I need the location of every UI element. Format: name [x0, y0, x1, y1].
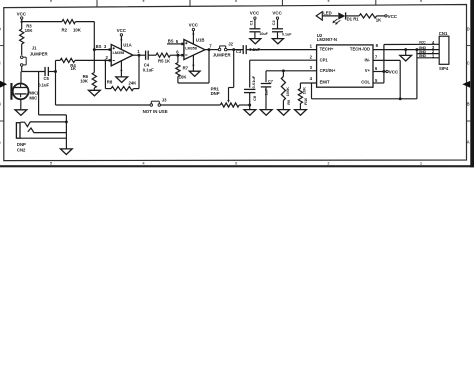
- svg-text:D: D: [467, 27, 470, 32]
- svg-text:LM358: LM358: [113, 51, 125, 55]
- ground below C1: [250, 39, 261, 44]
- ground below U1B: [189, 71, 200, 76]
- svg-text:CN1: CN1: [439, 31, 448, 36]
- svg-text:100K: 100K: [285, 87, 290, 97]
- wire mic node to jack tip: [38, 72, 40, 115]
- ground below C6: [244, 110, 256, 116]
- svg-text:U1A: U1A: [123, 43, 132, 48]
- resistor R7: [177, 55, 179, 62]
- svg-text:C: C: [0, 61, 1, 66]
- svg-text:D1 R1: D1 R1: [347, 17, 360, 22]
- node ground tap on pin 8 net: [404, 48, 407, 51]
- node C5 output junction: [48, 71, 55, 73]
- svg-text:R10: R10: [303, 97, 308, 105]
- svg-text:MIC: MIC: [29, 95, 37, 100]
- svg-text:0.1uF: 0.1uF: [143, 68, 154, 73]
- svg-text:10K: 10K: [25, 28, 34, 33]
- node BS bias junction: [93, 48, 96, 51]
- connector CN1 SIP4: [439, 36, 449, 64]
- wire EMIT/IN- bottom run: [312, 98, 417, 100]
- svg-text:GND: GND: [419, 54, 427, 58]
- svg-text:0.01uF: 0.01uF: [251, 75, 256, 88]
- wire gain loop right segment: [161, 104, 221, 106]
- svg-text:10K: 10K: [73, 27, 82, 32]
- left margin row tick y=45.6: [0, 45, 4, 47]
- microphone MK1: [13, 84, 29, 100]
- svg-text:U1B: U1B: [196, 37, 205, 42]
- svg-text:COL: COL: [361, 80, 370, 85]
- svg-text:LM358: LM358: [185, 46, 197, 50]
- svg-text:1K: 1K: [376, 17, 382, 22]
- jack sleeve wire to ground: [20, 137, 66, 139]
- capacitor C6: [244, 88, 255, 90]
- svg-text:J3: J3: [162, 97, 167, 102]
- capacitor C5: [44, 67, 46, 76]
- op-amp U1B: [184, 40, 205, 60]
- svg-text:VCC: VCC: [388, 14, 398, 19]
- svg-text:JUMPER: JUMPER: [213, 53, 231, 58]
- svg-text:CP2/IN+: CP2/IN+: [320, 68, 336, 73]
- ground below jack: [60, 149, 72, 155]
- ground below U1A: [116, 77, 128, 83]
- left margin row tick y=121: [0, 120, 4, 122]
- jumper J3 NOT IN USE: [150, 104, 153, 107]
- svg-text:V+: V+: [365, 68, 371, 73]
- svg-text:10uF: 10uF: [259, 32, 268, 36]
- svg-text:CP1: CP1: [320, 58, 329, 63]
- connector CN2 jack sleeve: [16, 123, 20, 139]
- svg-text:NOT IN USE: NOT IN USE: [143, 109, 168, 114]
- capacitor C3: [242, 45, 244, 54]
- wire J2 to C3: [227, 49, 243, 51]
- wire VCC rail to CN1 pin 4: [384, 43, 439, 45]
- svg-text:C4: C4: [144, 62, 150, 67]
- resistor R10: [299, 83, 301, 89]
- top margin column tick at x=376: [375, 0, 377, 5]
- sheet outer border right thick bar: [470, 0, 474, 167]
- svg-text:J1: J1: [32, 46, 37, 51]
- node PR1/C6 junction: [248, 104, 251, 107]
- svg-text:JUMPER: JUMPER: [30, 52, 48, 57]
- trimmer PR1 wiper wire: [233, 50, 235, 88]
- U1A V- stub to ground: [120, 61, 122, 77]
- power symbol VCC at R1: [385, 15, 387, 17]
- wire C3 to U2 pin 1: [246, 49, 316, 51]
- wire U1B output to J2: [205, 49, 219, 51]
- node R5/R7 junction: [176, 54, 179, 57]
- LED D1: [338, 12, 345, 19]
- node C3/PR1 wiper junction: [232, 48, 235, 51]
- wire C4 to R5: [148, 54, 156, 56]
- svg-text:C2: C2: [271, 20, 276, 26]
- top margin clipped column numbers: [50, 0, 52, 2]
- wire U1A output: [133, 54, 145, 56]
- wire U2 pin 6 V+ to VCC: [373, 71, 386, 73]
- wire U2 pin 8 TECH-/OD to CN1 pin 3: [373, 49, 439, 51]
- node U1B output junction: [208, 48, 211, 51]
- wire mic node to C5: [22, 71, 45, 73]
- wire VCC to R2: [22, 21, 62, 23]
- svg-text:D: D: [0, 27, 1, 32]
- net stub BS to U1B pin 5: [167, 43, 181, 45]
- node CN1 ground riser junction: [415, 48, 418, 51]
- svg-text:B: B: [0, 102, 1, 107]
- svg-text:LM2907-N: LM2907-N: [317, 37, 337, 42]
- capacitor C4: [145, 51, 147, 60]
- op-amp U1A: [111, 44, 133, 66]
- svg-text:10K: 10K: [179, 75, 188, 80]
- svg-text:LED: LED: [323, 11, 332, 16]
- wire U2 pin 7 IN-: [373, 59, 400, 61]
- wire LED flag to D1: [322, 15, 338, 17]
- node jack tip junction: [65, 120, 68, 123]
- wire R5 to U1B pin 6 node: [170, 54, 178, 56]
- top margin column tick at x=97: [96, 0, 98, 7]
- resistor R9: [282, 71, 284, 77]
- net flag LED: [316, 12, 322, 20]
- svg-text:3: 3: [235, 162, 237, 166]
- svg-text:A: A: [467, 140, 470, 145]
- sheet frame inner border: [4, 5, 467, 161]
- svg-text:IN-: IN-: [364, 58, 370, 63]
- feedback resistor R8 loop: [104, 60, 106, 88]
- node V+/COL junction: [382, 70, 385, 73]
- resistor R4: [56, 59, 61, 61]
- wire U2 pin 4 EMIT branch down: [311, 83, 313, 99]
- svg-text:VCC: VCC: [389, 69, 399, 74]
- wire bias node to U1A pin 3: [94, 49, 108, 51]
- node VCC junction: [21, 21, 23, 23]
- wire U2 pin 3 to C7: [266, 70, 317, 72]
- svg-text:DNP: DNP: [211, 91, 220, 96]
- ground below C2: [272, 39, 283, 44]
- resistor R3: [21, 22, 23, 29]
- top margin column tick at x=282: [281, 0, 283, 6]
- ground below R6: [89, 90, 101, 96]
- right margin row tick y=121: [467, 120, 471, 122]
- svg-text:DNP: DNP: [17, 142, 26, 147]
- wire U2 pin 2 to C6: [250, 59, 317, 61]
- svg-text:R5 1K: R5 1K: [158, 59, 171, 64]
- resistor R2: [62, 20, 75, 24]
- ground below R10: [295, 110, 307, 116]
- svg-text:R9: R9: [286, 99, 291, 105]
- resistor R5: [156, 53, 170, 57]
- svg-text:0.1uF: 0.1uF: [282, 33, 292, 37]
- svg-text:C3: C3: [236, 49, 242, 54]
- svg-text:TECH-/OD: TECH-/OD: [350, 46, 370, 51]
- svg-text:CN2: CN2: [17, 148, 26, 153]
- svg-text:C6: C6: [252, 95, 257, 101]
- svg-text:C: C: [467, 61, 470, 66]
- U1B pin 6 pad: [181, 54, 184, 57]
- top margin column tick at x=190: [189, 0, 191, 6]
- jack tip contact: [20, 122, 66, 127]
- ground below R9: [278, 110, 290, 116]
- capacitor C7: [261, 83, 271, 85]
- right margin row tick y=45.6: [467, 45, 471, 47]
- sheet outer border bottom thick line: [0, 165, 474, 167]
- ground below microphone: [20, 99, 22, 110]
- wire CN1 pin 1: [417, 57, 439, 59]
- U1B pin 5 pad: [181, 43, 184, 46]
- svg-text:VCC: VCC: [419, 41, 426, 45]
- svg-text:24K: 24K: [129, 81, 138, 86]
- svg-text:VCC: VCC: [17, 11, 27, 16]
- wire R2 to bias node: [75, 21, 94, 23]
- sheet center arrow right edge: [462, 81, 470, 88]
- svg-text:R8: R8: [107, 80, 113, 85]
- U1B V- stub to ground: [192, 55, 194, 71]
- U1A pin 3 pad: [109, 48, 112, 51]
- svg-text:J2: J2: [228, 41, 233, 46]
- svg-text:EMIT: EMIT: [320, 80, 330, 85]
- jumper J1: [20, 56, 23, 59]
- svg-text:B: B: [467, 102, 470, 107]
- svg-text:SIP4: SIP4: [439, 66, 449, 71]
- svg-text:10K: 10K: [80, 79, 89, 84]
- svg-text:BS: BS: [96, 44, 102, 49]
- U1B feedback wire: [178, 82, 209, 84]
- wire PR1 to C6/ground node: [239, 104, 250, 106]
- wire COL/V+ riser to VCC rail: [383, 45, 385, 84]
- svg-text:VCC: VCC: [189, 23, 199, 28]
- svg-text:R2: R2: [62, 27, 68, 32]
- svg-text:C7: C7: [268, 78, 274, 83]
- IC U2 LM2907-N: [317, 45, 373, 87]
- U1A pin 2 pad: [109, 59, 112, 62]
- wire R1 to VCC: [377, 15, 385, 17]
- svg-text:BS: BS: [168, 39, 174, 44]
- node U1A output feedback junction: [138, 54, 141, 57]
- node R9 top junction: [282, 69, 285, 72]
- wire U2 pin 5 COL: [373, 82, 384, 84]
- resistor R6: [93, 50, 95, 73]
- svg-text:VCC: VCC: [272, 11, 282, 16]
- svg-text:TECH+: TECH+: [320, 46, 334, 51]
- svg-text:R7: R7: [183, 66, 189, 71]
- svg-text:VCC: VCC: [117, 28, 127, 33]
- wire R10 to U2 pin 4: [300, 82, 316, 84]
- resistor R1: [359, 14, 376, 18]
- node IN- junction on bottom run: [399, 97, 402, 100]
- capacitor C1: [254, 19, 256, 28]
- sheet center arrow left edge: [0, 81, 7, 88]
- ground on pin 8 net: [400, 55, 412, 61]
- wire R4 to U1A pin 2: [75, 59, 109, 61]
- svg-text:10K: 10K: [302, 87, 307, 94]
- svg-text:A: A: [0, 140, 1, 145]
- wire CN1 riser down to bottom run: [416, 50, 418, 99]
- wire CN1 pin 2: [417, 53, 439, 55]
- wire gain loop left segment: [56, 104, 151, 106]
- svg-text:2: 2: [327, 162, 329, 166]
- svg-text:C5: C5: [44, 76, 50, 81]
- ground below C7: [260, 110, 272, 116]
- wire C5 node down to gain loop: [55, 72, 57, 106]
- wire mic node down to microphone: [20, 72, 22, 84]
- capacitor C2: [277, 19, 279, 28]
- svg-text:VCC: VCC: [250, 11, 260, 16]
- svg-text:C1: C1: [248, 20, 253, 26]
- svg-text:0.1uF: 0.1uF: [38, 82, 49, 87]
- trimmer PR1: [220, 103, 239, 107]
- wire D1 to R1: [346, 15, 360, 17]
- svg-text:1K: 1K: [71, 66, 77, 71]
- wire C5 node up to R4: [55, 60, 57, 71]
- jumper J2: [218, 48, 221, 51]
- wire J1 to mic node: [21, 66, 23, 71]
- power symbol VCC at U2 pin 6: [386, 70, 388, 72]
- jack ring contact: [28, 128, 67, 133]
